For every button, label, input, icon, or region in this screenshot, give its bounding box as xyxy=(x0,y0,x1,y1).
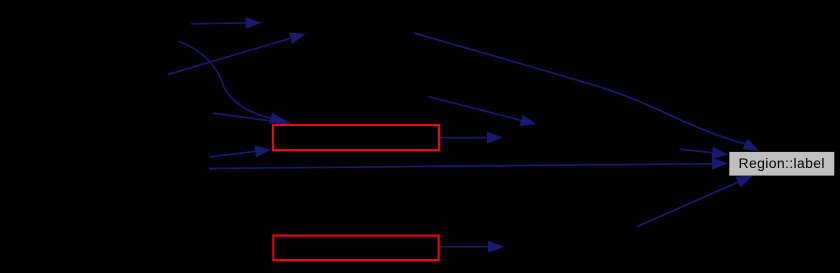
edge E1 arrow top-left horizontal xyxy=(191,17,262,29)
edge E3 curve to node1 top-left xyxy=(178,41,286,124)
edge E2 arrow diagonal up-right xyxy=(168,33,306,75)
edge E12 arrow out of node2 right side xyxy=(440,241,504,253)
node1 red box xyxy=(273,125,439,150)
edge E10 short arrow to Region::label left upper xyxy=(680,147,728,159)
node Region::label xyxy=(729,152,834,176)
edge E9 long curve to Region::label top xyxy=(414,33,759,151)
svg-text:Region::label: Region::label xyxy=(739,155,825,171)
edge E11 arrow diagonal to Region::label bottom xyxy=(637,176,753,227)
edge E6 long horizontal line to Region::label xyxy=(209,158,728,170)
edge E8 arrow diagonal mid xyxy=(429,97,537,126)
node2 red box xyxy=(273,236,438,260)
edge E4 arrow to node1 top edge xyxy=(213,113,292,127)
edge E5 arrow to node1 bottom-left corner xyxy=(210,146,272,158)
edge E7 arrow out of node1 right side xyxy=(440,132,503,144)
